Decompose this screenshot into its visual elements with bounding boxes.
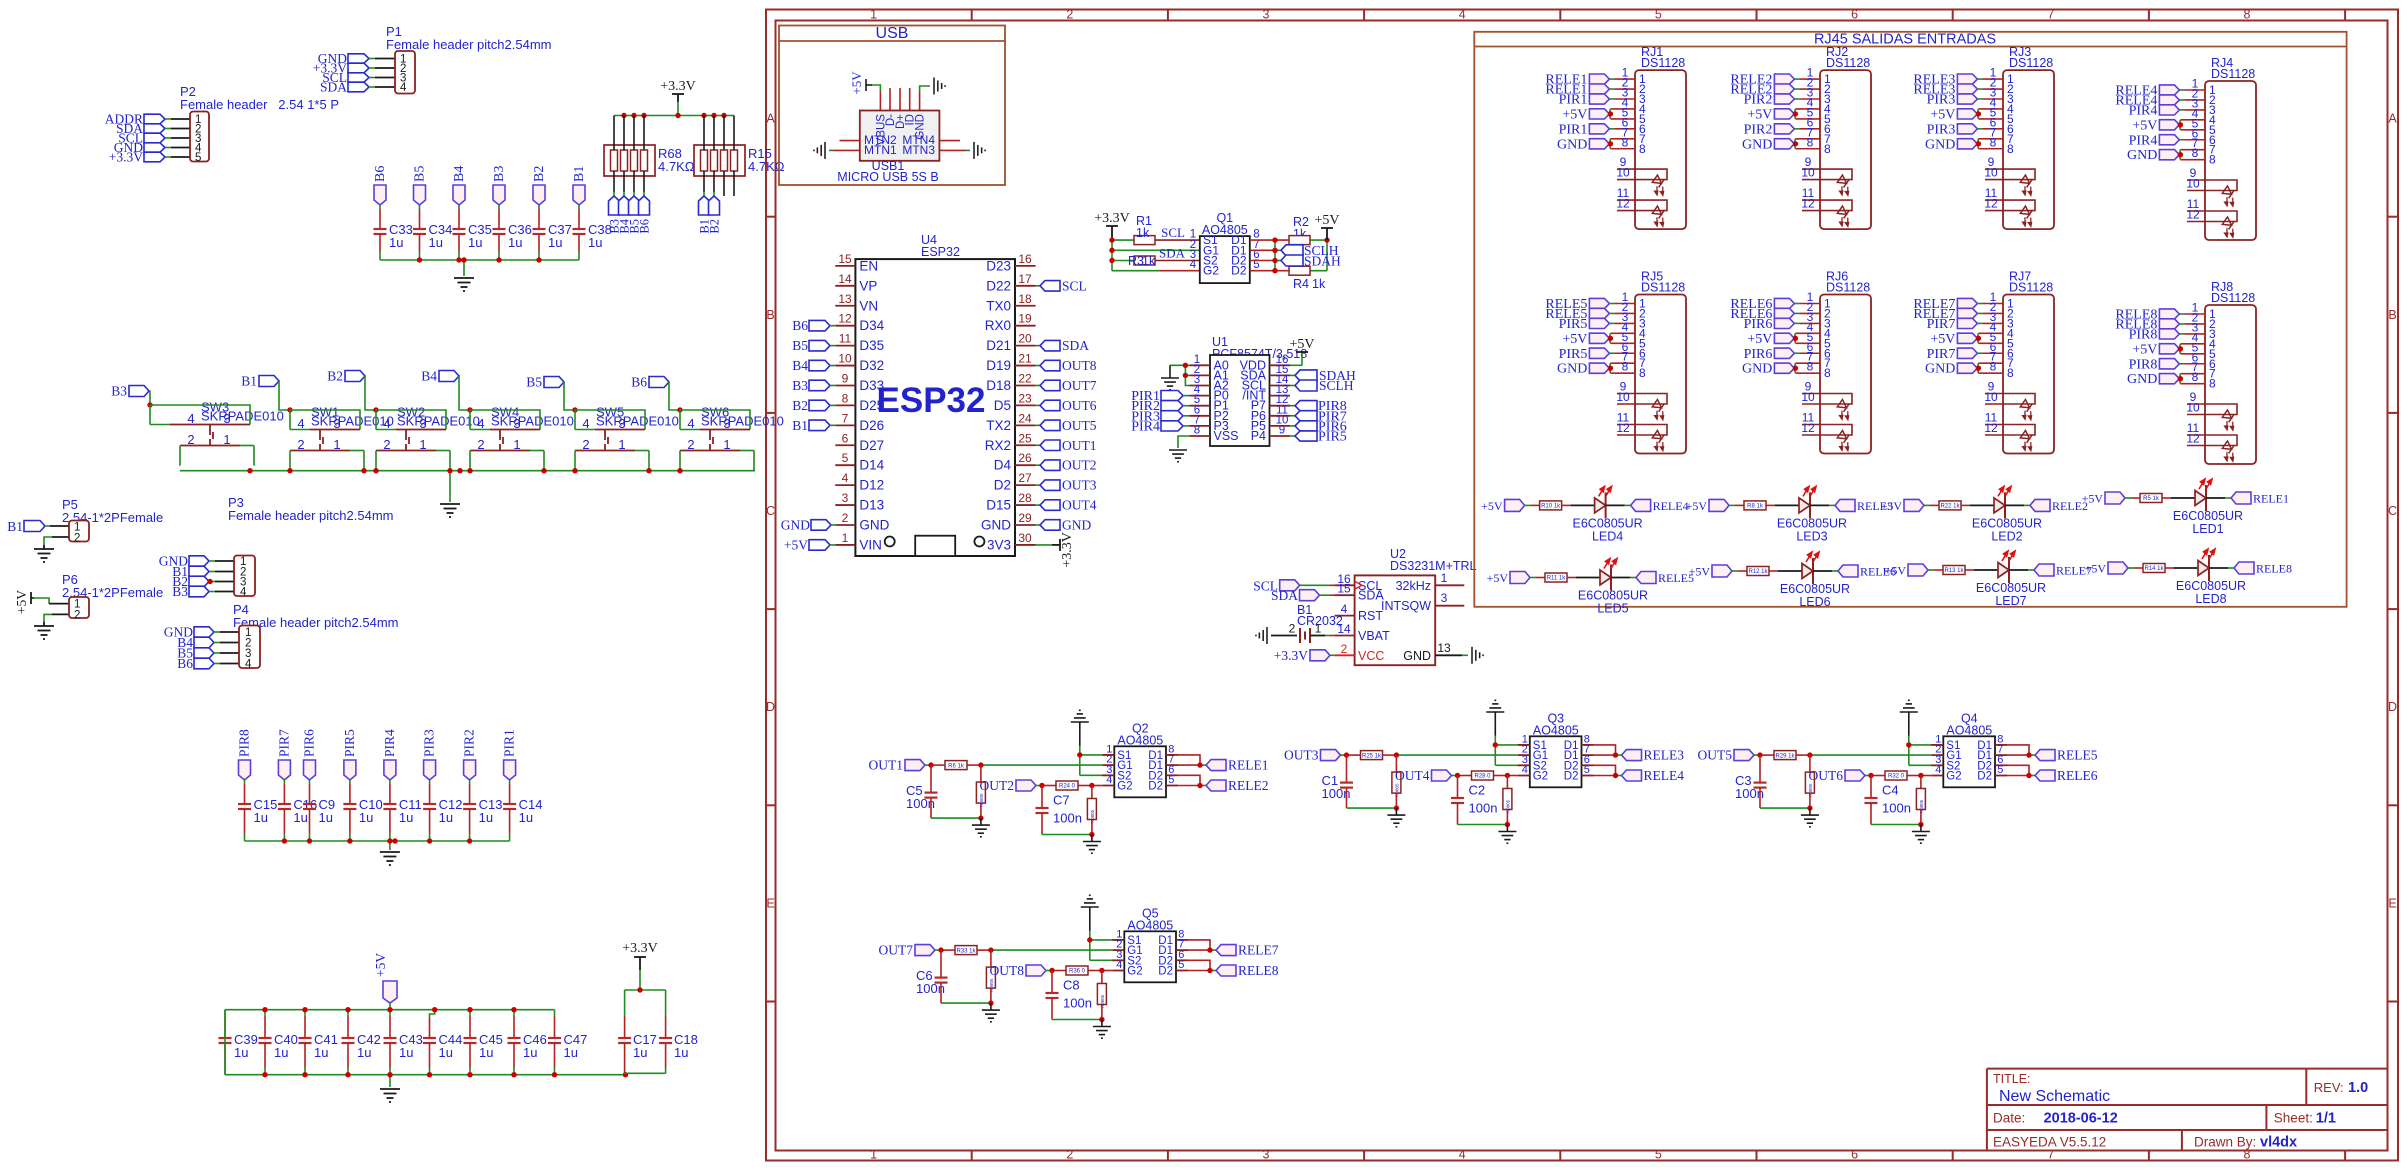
wire <box>1594 745 1622 755</box>
ground <box>1486 700 1504 712</box>
chip U4 ESP32 body <box>855 233 1015 556</box>
net flag B6 <box>631 375 669 390</box>
pin 13 /INT (U1) <box>1242 384 1290 403</box>
LED (inside RJ) <box>2218 186 2241 209</box>
switch SW3 SKRPADE010 <box>150 400 284 466</box>
svg-text:+5V: +5V <box>1481 499 1503 513</box>
svg-text:2018-06-12: 2018-06-12 <box>2044 1111 2118 1127</box>
net flag +3.3V (P2 pin 5) <box>109 150 165 165</box>
wire <box>419 234 421 260</box>
svg-text:G2: G2 <box>1946 771 1961 783</box>
wire <box>2179 86 2205 100</box>
ground <box>974 142 985 159</box>
svg-text:4: 4 <box>1935 764 1941 776</box>
junction <box>282 838 287 843</box>
wire <box>1495 712 1530 765</box>
svg-text:8: 8 <box>1990 135 1997 149</box>
ground <box>814 142 825 159</box>
net flag GND (U4) <box>1036 517 1092 532</box>
wire USB pin <box>879 88 881 111</box>
junction <box>978 762 983 767</box>
junction <box>456 257 461 262</box>
svg-text:ESP32: ESP32 <box>921 245 960 259</box>
net flag RELE6 <box>2035 768 2098 783</box>
connector RJ7 DS1128 label <box>2009 270 2053 295</box>
net flag B5 (U4) <box>792 338 835 353</box>
net flag PIR4 (RJ4) <box>2129 133 2180 148</box>
net flag +5V (LED5) <box>1487 571 1530 585</box>
connector P4 body <box>239 626 260 671</box>
connector P4 label <box>233 602 398 630</box>
net flag +5V (LED2) <box>1881 499 1924 513</box>
wire <box>931 798 981 819</box>
svg-text:GND: GND <box>1925 362 1955 377</box>
pin 19 RX0 (U4) <box>985 312 1036 334</box>
net flag RELE4 <box>1631 499 1689 513</box>
wire <box>1977 350 2003 374</box>
svg-text:10: 10 <box>1616 166 1630 180</box>
junction <box>1976 141 1981 146</box>
wire <box>872 85 880 88</box>
net flag SDAH (U1) <box>1290 368 1356 383</box>
svg-text:R4: R4 <box>1293 277 1309 291</box>
net flag OUT4 <box>1395 768 1452 783</box>
svg-text:B2: B2 <box>327 369 343 384</box>
capacitor C9 1u <box>303 797 335 825</box>
wire <box>1977 300 2003 314</box>
svg-text:E6C0805UR: E6C0805UR <box>1972 516 2042 530</box>
svg-text:AO4805: AO4805 <box>1127 918 1173 932</box>
svg-text:SKRPADE010: SKRPADE010 <box>201 409 284 424</box>
wire GND bottom rail <box>225 1010 626 1087</box>
svg-text:1k: 1k <box>1136 226 1150 240</box>
net flag +5V (LED7) <box>1885 564 1928 578</box>
svg-text:B1: B1 <box>572 166 587 182</box>
net flag B4 (U4) <box>792 358 835 373</box>
wire <box>1977 320 2003 344</box>
wire <box>2179 310 2205 324</box>
net flag GND (P4 pin 1) <box>164 625 214 640</box>
net flag B6 (U4) <box>792 318 835 333</box>
wire <box>1766 504 1799 506</box>
capacitor C13 1u <box>463 797 502 825</box>
junction <box>1976 365 1981 370</box>
svg-text:USB: USB <box>876 25 909 42</box>
svg-text:LED7: LED7 <box>1995 594 2026 608</box>
svg-text:PIR6: PIR6 <box>1744 317 1773 332</box>
capacitor C3 100n <box>1735 755 1767 801</box>
capacitor C8 100n <box>1046 971 1092 1011</box>
capacitor C34 1u <box>413 222 452 250</box>
svg-text:8: 8 <box>2209 377 2216 391</box>
svg-text:1.0: 1.0 <box>2348 1080 2368 1096</box>
svg-text:SCL: SCL <box>1062 278 1087 293</box>
svg-text:LED1: LED1 <box>2192 522 2223 536</box>
net flag SDA (P1 pin 4) <box>320 80 369 95</box>
svg-text:4: 4 <box>1522 764 1528 776</box>
svg-text:22: 22 <box>1018 371 1032 385</box>
svg-text:8: 8 <box>1194 425 1200 437</box>
net flag RELE7 <box>1216 943 1279 958</box>
ground <box>454 278 474 291</box>
svg-text:E6C0805UR: E6C0805UR <box>2173 509 2243 523</box>
svg-text:12: 12 <box>1616 421 1630 435</box>
svg-text:1: 1 <box>723 437 730 452</box>
ground <box>34 545 54 562</box>
svg-text:B5: B5 <box>792 338 808 353</box>
svg-text:2: 2 <box>1066 1148 1073 1162</box>
svg-text:GND: GND <box>1742 362 1772 377</box>
svg-text:32kHz: 32kHz <box>1396 579 1431 593</box>
svg-text:7: 7 <box>2047 8 2054 22</box>
svg-text:3: 3 <box>333 416 340 431</box>
svg-text:24: 24 <box>1018 411 1032 425</box>
svg-text:D35: D35 <box>859 338 884 353</box>
net flag PIR3 (RJ3) <box>1927 93 1978 108</box>
wire GND rail <box>245 841 510 850</box>
net flag B1 <box>241 374 279 389</box>
ground <box>934 78 945 95</box>
wire <box>1609 320 1635 344</box>
net flag +5V (LED1) <box>2082 492 2125 506</box>
pin pair RJ1 indicator LED <box>1616 155 1667 180</box>
svg-text:E6C0805UR: E6C0805UR <box>1777 516 1847 530</box>
svg-text:SKRPADE010: SKRPADE010 <box>701 414 784 429</box>
resistor R33 1k <box>955 946 977 955</box>
svg-text:R28 0: R28 0 <box>1474 774 1491 780</box>
wire <box>1794 350 1820 374</box>
junction <box>1272 248 1277 253</box>
net flag RELE4 (RJ4) <box>2115 93 2179 108</box>
net flag PIR4 (RJ4) <box>2129 103 2180 118</box>
connector P3 body <box>234 556 255 599</box>
svg-text:DS1128: DS1128 <box>2009 56 2053 70</box>
pin 4 P0 (U1) <box>1190 384 1229 403</box>
net flag PIR7 (RJ7) <box>1927 347 1978 362</box>
wire <box>625 970 666 1075</box>
net flag RELE1 <box>1206 758 1269 773</box>
title block <box>1987 1069 2388 1151</box>
net flag B3 <box>492 166 507 205</box>
transistor Q4 AO4805 <box>1931 711 2007 787</box>
junction <box>721 113 726 118</box>
net flag PIR4 <box>382 729 397 780</box>
wire <box>1794 310 1820 324</box>
wire <box>1928 569 1943 571</box>
resistor R36 0 <box>1066 966 1088 975</box>
svg-text:1: 1 <box>842 531 849 545</box>
LED LED7 E6C0805UR <box>1976 551 2046 608</box>
svg-text:+5V: +5V <box>2132 118 2157 133</box>
svg-text:A: A <box>766 112 775 126</box>
pin pair RJ3 indicator LED <box>1984 186 2035 211</box>
svg-text:23: 23 <box>1018 391 1032 405</box>
wire <box>349 780 351 804</box>
svg-text:SDAH: SDAH <box>1304 254 1341 269</box>
wire <box>379 205 381 229</box>
svg-text:8: 8 <box>1990 360 1997 374</box>
ground <box>1900 700 1918 712</box>
wire <box>1794 95 1820 119</box>
ground <box>982 1003 1000 1022</box>
svg-text:3: 3 <box>1263 8 1270 22</box>
wire <box>1494 775 1518 777</box>
svg-text:1u: 1u <box>274 1045 288 1060</box>
wire <box>1794 86 1820 100</box>
svg-text:+5V: +5V <box>1562 107 1587 122</box>
svg-text:+3.3V: +3.3V <box>1094 211 1130 226</box>
svg-text:RX0: RX0 <box>985 318 1011 333</box>
svg-text:7: 7 <box>842 411 849 425</box>
net flag RELE6 (RJ6) <box>1730 297 1794 312</box>
wire <box>1760 788 1810 809</box>
LED (inside RJ) <box>1833 399 1856 422</box>
junction <box>496 257 501 262</box>
junction <box>247 468 252 473</box>
wire <box>458 205 460 229</box>
svg-text:2: 2 <box>582 437 589 452</box>
ground <box>1081 895 1099 907</box>
svg-text:D13: D13 <box>859 498 884 513</box>
svg-text:PIR5: PIR5 <box>1559 347 1588 362</box>
svg-text:+5V: +5V <box>784 537 808 552</box>
svg-text:C4: C4 <box>1882 783 1899 798</box>
svg-text:LED8: LED8 <box>2195 592 2226 606</box>
wire <box>1609 76 1635 90</box>
capacitor C40 1u <box>259 1010 298 1075</box>
connector RJ2 DS1128 body <box>1820 70 1871 229</box>
svg-text:AO4805: AO4805 <box>1533 723 1579 737</box>
pin 16 VDD (U1) <box>1240 354 1290 373</box>
svg-text:PIR4: PIR4 <box>1131 419 1160 434</box>
connector RJ6 DS1128 label <box>1826 270 1870 295</box>
svg-text:AO4805: AO4805 <box>1117 733 1163 747</box>
LED (inside RJ) <box>1648 399 1671 422</box>
ground <box>1801 808 1819 827</box>
svg-text:PIR5: PIR5 <box>342 729 357 757</box>
net flag OUT6 (U4) <box>1036 398 1097 413</box>
svg-text:D23: D23 <box>986 258 1011 273</box>
svg-text:1u: 1u <box>468 235 482 250</box>
pin pair RJ5 indicator LED <box>1616 380 1667 405</box>
connector RJ4 DS1128 label <box>2211 56 2255 81</box>
junction <box>1394 752 1399 757</box>
LED LED1 E6C0805UR <box>2173 479 2243 536</box>
pin 9 P4 (U1) <box>1251 425 1290 444</box>
svg-text:4: 4 <box>1106 774 1112 786</box>
LED (inside RJ) <box>2218 410 2241 433</box>
junction <box>1207 968 1212 973</box>
net flag +5V (RJ6) <box>1747 332 1794 347</box>
net flag RELE8 <box>2234 562 2292 576</box>
net flag B4 (P4 pin 2) <box>177 635 214 650</box>
power +5V <box>373 953 397 1003</box>
net flag OUT7 (U4) <box>1036 378 1097 393</box>
resistor R8 1k <box>1744 501 1766 510</box>
junction <box>1197 783 1202 788</box>
junction <box>646 468 651 473</box>
svg-text:PIR1: PIR1 <box>1559 122 1588 137</box>
wire <box>369 77 395 79</box>
net flag OUT4 (U4) <box>1036 498 1097 513</box>
svg-text:B4: B4 <box>421 369 437 384</box>
wire <box>1813 570 1838 572</box>
svg-text:EASYEDA V5.5.12: EASYEDA V5.5.12 <box>1993 1135 2106 1150</box>
net flag SDAH <box>1281 254 1341 269</box>
junction <box>1976 111 1981 116</box>
net flag B2 <box>327 369 365 384</box>
resistor R28 0 <box>1472 771 1494 780</box>
junction <box>978 815 983 820</box>
junction <box>1109 237 1114 242</box>
wire <box>1961 504 1994 506</box>
connector P5 body <box>69 521 89 545</box>
net flag SCLH <box>1281 243 1339 258</box>
net flag +5V (RJ5) <box>1562 332 1609 347</box>
svg-text:1u: 1u <box>234 1045 248 1060</box>
wire <box>1530 577 1545 579</box>
net flag B2 (P3 pin 3) <box>172 574 209 589</box>
net flag SCLH (U1) <box>1290 378 1354 393</box>
wire <box>723 116 725 197</box>
svg-text:1u: 1u <box>439 1045 453 1060</box>
net flag PIR5 (U1) <box>1290 430 1347 445</box>
svg-text:SKRPADE010: SKRPADE010 <box>311 414 394 429</box>
svg-text:8: 8 <box>1639 142 1646 156</box>
wire <box>1794 76 1820 90</box>
svg-text:C2: C2 <box>1469 783 1486 798</box>
svg-text:+3.3V: +3.3V <box>1060 532 1075 568</box>
pin 11 D35 (U4) <box>835 332 884 354</box>
svg-text:B1: B1 <box>241 374 257 389</box>
junction <box>1613 773 1618 778</box>
LED (inside RJ) <box>2016 430 2039 453</box>
svg-text:RELE8: RELE8 <box>1238 963 1279 978</box>
wire <box>967 764 1102 766</box>
svg-text:SDA: SDA <box>1271 588 1298 603</box>
connector RJ6 DS1128 body <box>1820 295 1871 454</box>
junction <box>711 113 716 118</box>
svg-text:100n: 100n <box>1063 996 1092 1011</box>
wire <box>244 780 246 804</box>
connector RJ8 DS1128 label <box>2211 280 2255 305</box>
wire USB pin <box>889 88 891 111</box>
svg-text:1u: 1u <box>508 235 522 250</box>
net flag RELE2 <box>2030 499 2088 513</box>
LED (inside RJ) <box>2218 217 2241 240</box>
pin 17 D22 (U4) <box>986 272 1035 294</box>
pin pair RJ2 indicator LED <box>1801 155 1852 180</box>
resistor R2 1k <box>1289 215 1310 245</box>
svg-text:1u: 1u <box>633 1045 647 1060</box>
wire <box>389 1003 391 1010</box>
svg-text:OUT4: OUT4 <box>1062 498 1097 513</box>
svg-text:3: 3 <box>1441 591 1448 605</box>
svg-text:GND: GND <box>1403 649 1431 663</box>
pin pair RJ4 indicator LED <box>2186 166 2237 191</box>
wire <box>279 381 290 410</box>
connector P5 label <box>62 497 163 525</box>
LED LED8 E6C0805UR <box>2176 549 2246 606</box>
wire A0-A2 to ground <box>1170 365 1190 385</box>
net flag RELE3 <box>1622 748 1685 763</box>
svg-text:PIR5: PIR5 <box>1318 430 1347 445</box>
junction <box>1757 752 1762 757</box>
junction <box>511 1072 516 1077</box>
junction <box>1793 336 1798 341</box>
net flag PIR2 <box>462 729 477 780</box>
svg-text:D2: D2 <box>1977 771 1992 783</box>
svg-text:PIR7: PIR7 <box>1927 317 1956 332</box>
svg-text:R13 1k: R13 1k <box>1944 568 1964 574</box>
svg-text:OUT4: OUT4 <box>1395 768 1430 783</box>
wire <box>2179 126 2205 140</box>
svg-text:1: 1 <box>870 1148 877 1162</box>
connector P2 label <box>180 84 339 112</box>
resistor R13 1k <box>1943 566 1965 575</box>
net flag PIR7 <box>276 729 291 780</box>
svg-text:10: 10 <box>1984 390 1998 404</box>
net flag +5V (U4 pin1) <box>784 537 835 552</box>
svg-text:DS3231M+TRL: DS3231M+TRL <box>1390 559 1477 573</box>
junction <box>1207 947 1212 952</box>
wire <box>1112 240 1200 271</box>
svg-text:8: 8 <box>2209 153 2216 167</box>
LED (inside RJ) <box>2016 206 2039 229</box>
net flag +5V (LED3) <box>1686 499 1729 513</box>
connector P6 body <box>69 597 89 622</box>
net flag OUT8 <box>990 963 1047 978</box>
net flag +5V (LED8) <box>2085 562 2128 576</box>
junction <box>387 1007 392 1012</box>
svg-text:OUT5: OUT5 <box>1698 748 1733 763</box>
svg-text:4: 4 <box>477 416 484 431</box>
svg-text:RELE5: RELE5 <box>2057 748 2098 763</box>
junction <box>631 113 636 118</box>
junction <box>347 838 352 843</box>
pin pair RJ7 indicator LED <box>1984 380 2035 405</box>
wire <box>1188 960 1216 970</box>
wire <box>1977 115 2003 129</box>
LED LED4 E6C0805UR <box>1573 486 1643 543</box>
wire <box>1729 504 1744 506</box>
svg-text:8: 8 <box>1807 135 1814 149</box>
svg-text:R25 1k: R25 1k <box>1362 753 1382 759</box>
junction <box>262 1072 267 1077</box>
capacitor C12 1u <box>423 797 462 825</box>
wire <box>2179 350 2205 364</box>
wire <box>1611 577 1636 579</box>
svg-text:2: 2 <box>74 610 80 622</box>
svg-text:OUT2: OUT2 <box>980 778 1015 793</box>
wire <box>1525 504 1540 506</box>
net flag OUT5 <box>1698 748 1755 763</box>
svg-text:D14: D14 <box>859 458 884 473</box>
net flag GND (RJ3) <box>1925 137 1977 152</box>
svg-text:B3: B3 <box>111 384 127 399</box>
junction <box>307 838 312 843</box>
wire <box>498 205 500 229</box>
wire <box>309 809 311 841</box>
junction <box>1183 363 1188 368</box>
power +5V (USB) <box>849 71 872 95</box>
wire <box>1977 76 2003 90</box>
capacitor C45 1u <box>464 1010 503 1075</box>
capacitor C14 1u <box>503 797 542 825</box>
wire <box>1609 125 1635 149</box>
junction <box>1807 752 1812 757</box>
pin 21 D19 (U4) <box>986 352 1035 374</box>
